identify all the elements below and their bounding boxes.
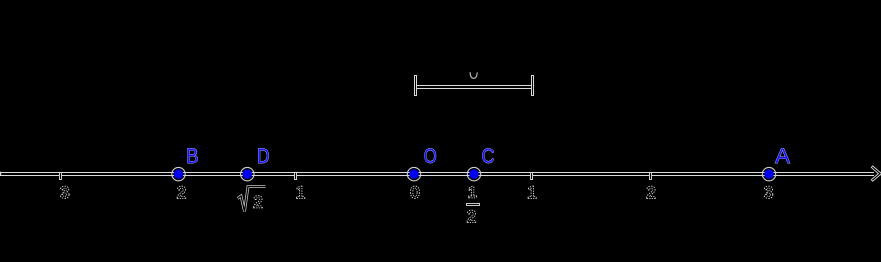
point A xyxy=(762,167,775,180)
svg-text:0: 0 xyxy=(410,183,419,202)
tick 1 xyxy=(530,173,533,180)
point C xyxy=(467,167,480,180)
number line axis xyxy=(0,172,874,176)
svg-text:1: 1 xyxy=(468,185,477,202)
svg-text:1: 1 xyxy=(296,183,305,202)
point B xyxy=(172,167,185,180)
radical sign of sqrt(2) label under point D xyxy=(238,187,266,212)
svg-text:B: B xyxy=(186,145,199,168)
axis right arrowhead xyxy=(873,167,880,179)
bracket label a xyxy=(470,73,477,79)
svg-text:2: 2 xyxy=(177,183,186,202)
svg-text:3: 3 xyxy=(60,183,69,202)
svg-text:3: 3 xyxy=(764,183,773,202)
unit segment bracket above axis xyxy=(415,85,533,89)
svg-text:2: 2 xyxy=(467,207,476,226)
svg-text:O: O xyxy=(424,145,437,168)
tick -1 xyxy=(294,173,297,180)
bracket right end bar xyxy=(531,75,534,96)
svg-text:C: C xyxy=(482,145,495,168)
point O (origin) xyxy=(407,167,420,180)
svg-text:2: 2 xyxy=(253,193,262,212)
svg-text:A: A xyxy=(775,145,790,168)
point D xyxy=(241,167,254,180)
fraction bar xyxy=(466,203,480,206)
svg-text:1: 1 xyxy=(527,183,536,202)
svg-text:2: 2 xyxy=(646,183,655,202)
tick 2 xyxy=(649,173,652,180)
axis left arrow stub (clipped at edge) xyxy=(0,172,1,176)
svg-text:D: D xyxy=(257,145,270,168)
tick -3 xyxy=(59,173,62,180)
bracket left end bar xyxy=(414,75,417,96)
